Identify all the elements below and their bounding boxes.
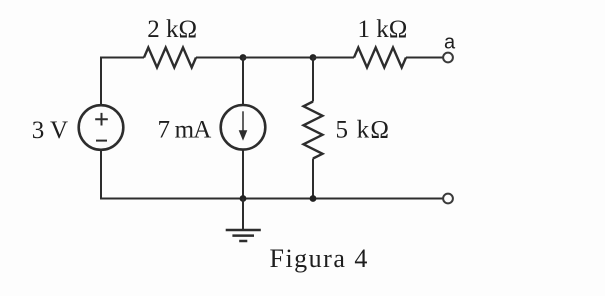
- wire 5k bottom: [312, 159, 314, 199]
- svg-text:2 kΩ: 2 kΩ: [147, 16, 197, 43]
- V1 minus sign: [96, 140, 107, 142]
- svg-text:3: 3: [32, 117, 45, 144]
- V1 plus sign: [95, 113, 108, 126]
- resistor R2 1 kOhm: [354, 48, 406, 68]
- svg-text:5 kΩ: 5 kΩ: [336, 117, 391, 144]
- wire 5k top: [312, 58, 314, 102]
- svg-text:V: V: [50, 117, 68, 144]
- wire current source bottom: [242, 149, 244, 198]
- wire R1 to node A: [196, 57, 243, 59]
- ground stem: [242, 199, 244, 230]
- node D junction dot: [310, 195, 317, 202]
- node B junction dot: [310, 54, 317, 61]
- bottom wire: [100, 198, 443, 200]
- voltage source V1 circle: [79, 105, 124, 150]
- ground bar 1: [226, 229, 261, 232]
- node A junction dot: [240, 54, 247, 61]
- wire left vertical upper: [100, 58, 102, 106]
- wire top-left horizontal: [100, 57, 144, 59]
- wire left vertical lower: [100, 150, 102, 200]
- svg-text:7 mA: 7 mA: [158, 116, 212, 143]
- svg-text:Figura 4: Figura 4: [270, 244, 369, 273]
- wire current source top: [242, 58, 244, 106]
- current source I1 circle: [221, 105, 266, 150]
- ground bar 2: [232, 234, 254, 237]
- I1 arrowhead: [239, 130, 248, 141]
- ground bar 3: [239, 240, 247, 243]
- resistor R3 5 kOhm vertical: [304, 102, 323, 159]
- terminal a open circle: [443, 53, 453, 63]
- wire R2 to terminal a: [406, 57, 443, 59]
- node C junction dot (ground node): [240, 195, 247, 202]
- svg-text:1 kΩ: 1 kΩ: [358, 16, 408, 43]
- wire node B to R2: [313, 57, 354, 59]
- svg-text:a: a: [444, 32, 456, 54]
- resistor R1 2 kOhm: [144, 48, 196, 68]
- I1 arrow shaft: [242, 111, 244, 133]
- wire node A to node B: [243, 57, 313, 59]
- terminal b open circle: [443, 194, 453, 204]
